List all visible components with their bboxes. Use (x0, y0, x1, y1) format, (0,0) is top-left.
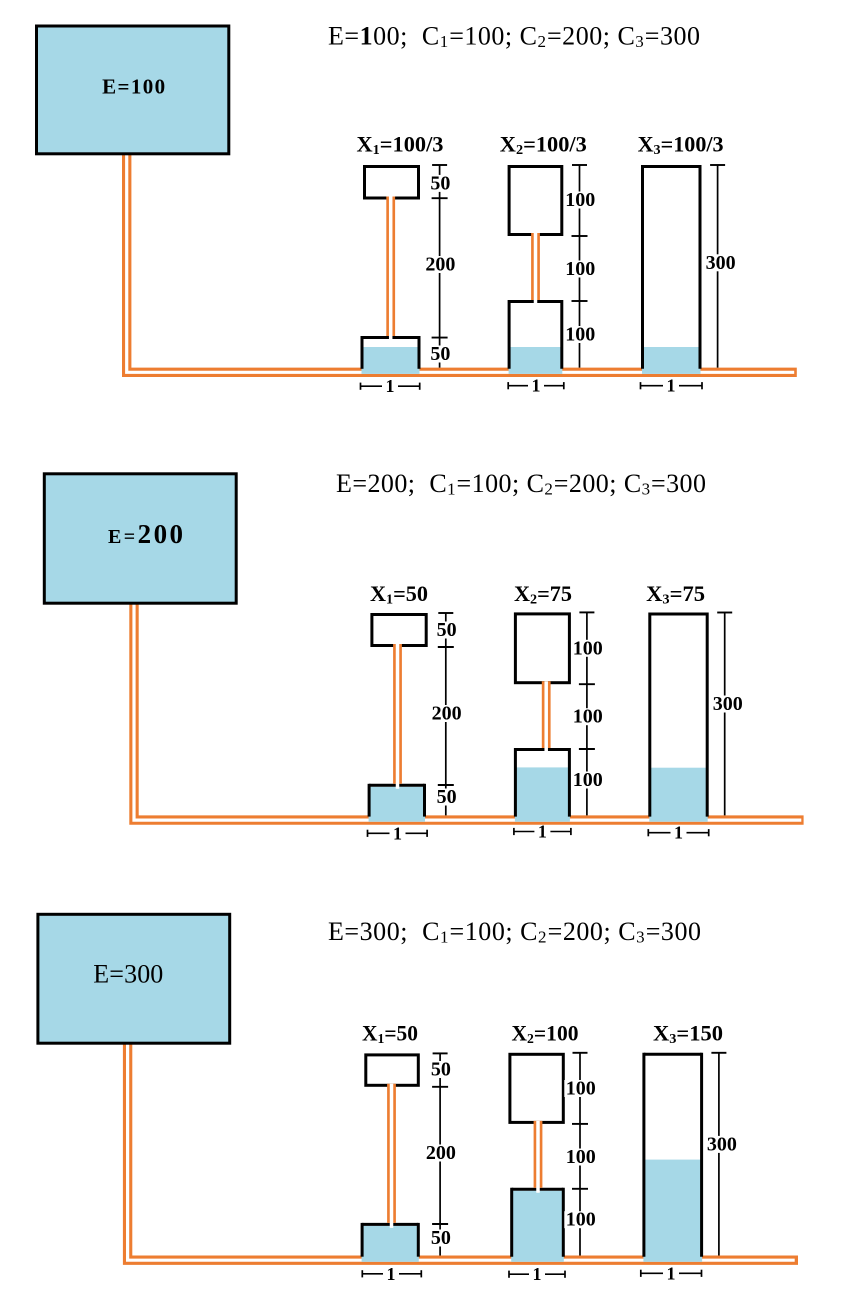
svg-text:X3​=75: X3​=75 (646, 581, 705, 608)
svg-text:300: 300 (713, 693, 743, 715)
svg-text:X1​=50: X1​=50 (370, 581, 428, 608)
svg-text:E=300: E=300 (93, 959, 163, 988)
svg-text:X2​=100/3: X2​=100/3 (500, 132, 587, 159)
svg-text:1: 1 (533, 1264, 542, 1284)
svg-text:X2​=100: X2​=100 (512, 1020, 579, 1047)
svg-text:50: 50 (437, 786, 457, 808)
svg-text:E=200; C1​=100; C2​=200; C3​=: E=200; C1​=100; C2​=200; C3​=300 (336, 469, 706, 499)
svg-text:100: 100 (565, 189, 595, 211)
svg-text:100: 100 (573, 637, 603, 659)
svg-text:300: 300 (707, 1133, 737, 1155)
svg-text:X2​=75: X2​=75 (514, 581, 572, 608)
svg-text:100: 100 (566, 1078, 596, 1100)
svg-text:200: 200 (425, 254, 455, 276)
svg-text:200: 200 (426, 1142, 456, 1164)
svg-text:100: 100 (573, 769, 603, 791)
svg-text:50: 50 (431, 1059, 451, 1081)
svg-text:100: 100 (565, 258, 595, 280)
svg-text:1: 1 (386, 376, 395, 396)
svg-text:1: 1 (667, 376, 676, 396)
svg-text:E=100: E=100 (102, 75, 165, 99)
svg-text:300: 300 (706, 252, 736, 274)
svg-text:E=300; C1​=100; C2​=200; C3​=: E=300; C1​=100; C2​=200; C3​=300 (328, 917, 701, 947)
svg-text:50: 50 (437, 619, 457, 641)
svg-text:1: 1 (532, 376, 541, 396)
svg-text:100: 100 (565, 324, 595, 346)
svg-text:E=100; C1​=100; C2​=200; C3​=: E=100; C1​=100; C2​=200; C3​=300 (328, 22, 700, 52)
svg-text:100: 100 (573, 706, 603, 728)
svg-text:50: 50 (430, 172, 450, 194)
svg-text:X1​=100/3: X1​=100/3 (357, 132, 444, 159)
svg-text:100: 100 (566, 1146, 596, 1168)
svg-text:X1​=50: X1​=50 (362, 1020, 418, 1047)
svg-text:50: 50 (431, 1227, 451, 1249)
svg-text:X3​=100/3: X3​=100/3 (638, 132, 724, 159)
svg-text:1: 1 (538, 822, 547, 842)
svg-text:1: 1 (393, 823, 402, 843)
svg-text:1: 1 (674, 823, 683, 843)
svg-text:100: 100 (566, 1209, 596, 1231)
svg-text:1: 1 (387, 1264, 396, 1284)
svg-text:X3​=150: X3​=150 (653, 1020, 723, 1047)
svg-text:200: 200 (432, 703, 462, 725)
svg-text:1: 1 (667, 1263, 676, 1283)
svg-text:50: 50 (430, 343, 450, 365)
